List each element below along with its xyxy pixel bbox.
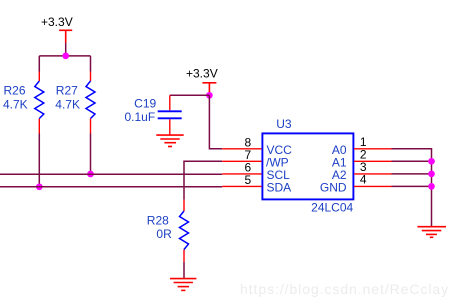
node pin4 junction: [428, 183, 435, 190]
svg-text:R28: R28: [147, 213, 169, 227]
resistor R27 pin stubs: [90, 72, 92, 134]
pin 8 VCC: [222, 148, 261, 150]
wire SCL bus: [0, 173, 222, 175]
wire pin2 to right vertical: [392, 160, 432, 162]
svg-text:C19: C19: [134, 96, 156, 110]
svg-text:U3: U3: [276, 117, 292, 131]
wire /WP from R28 top to pin 7: [184, 161, 222, 199]
ground under C19: [156, 135, 183, 146]
svg-text:GND: GND: [320, 181, 347, 195]
resistor R26: [35, 81, 44, 119]
svg-text:https://blog.csdn.net/ReCclay: https://blog.csdn.net/ReCclay: [240, 281, 449, 297]
node pin2 junction: [428, 158, 435, 165]
node R27/SCL junction: [87, 171, 94, 178]
svg-text:+3.3V: +3.3V: [41, 15, 73, 29]
wire R26 top: [38, 56, 40, 72]
wire pin3 to right vertical: [392, 173, 432, 175]
svg-text:+3.3V: +3.3V: [186, 67, 218, 81]
pin 7 /WP: [222, 160, 261, 162]
wire R28 bottom to ground: [183, 262, 185, 279]
wire top horizontal R26-R27: [39, 55, 90, 57]
node pin3 junction: [428, 171, 435, 178]
power bar +3.3V (middle): [202, 83, 216, 96]
power bar +3.3V (left): [59, 30, 72, 43]
ground right of U3: [417, 227, 446, 238]
wire power stem to junction: [65, 43, 67, 56]
wire R27 bottom to SCL bus: [90, 134, 92, 175]
capacitor C19 plates: [158, 111, 182, 118]
wire R27 top: [90, 56, 92, 72]
node junction power/C19/VCC: [206, 92, 213, 99]
wire SDA bus: [0, 186, 222, 188]
svg-text:0R: 0R: [156, 227, 172, 241]
svg-text:0.1uF: 0.1uF: [125, 110, 156, 124]
node junction power/R26/R27: [62, 53, 69, 60]
wire pin4 to right vertical: [392, 185, 432, 187]
pin 2 A1: [354, 160, 392, 162]
svg-text:5: 5: [245, 173, 252, 187]
wire VCC from junction down and right to pin 8: [209, 95, 222, 149]
svg-text:4.7K: 4.7K: [3, 98, 28, 112]
pin 3 A2: [354, 173, 392, 175]
resistor R26 pin stubs: [38, 72, 40, 134]
capacitor C19 leads: [169, 95, 171, 134]
pin 4 GND: [354, 185, 392, 187]
svg-text:4.7K: 4.7K: [55, 98, 80, 112]
pin 5 SDA: [222, 185, 261, 187]
pin 6 SCL: [222, 173, 261, 175]
resistor R27: [86, 81, 95, 119]
IC U3 24LC04 body: [262, 133, 353, 199]
svg-text:R27: R27: [56, 84, 78, 98]
svg-text:SDA: SDA: [267, 181, 292, 195]
wire C19 top horizontal: [170, 94, 210, 96]
svg-text:24LC04: 24LC04: [311, 200, 353, 214]
svg-text:R26: R26: [4, 84, 26, 98]
resistor R28 pin stubs: [183, 200, 185, 262]
resistor R28: [180, 211, 189, 250]
pin 1 A0: [354, 148, 392, 150]
node R26/SDA junction: [36, 183, 43, 190]
wire R26 bottom to SDA bus: [38, 134, 40, 187]
svg-text:4: 4: [360, 173, 367, 187]
ground under R28: [170, 279, 196, 291]
wire pin1 to right vertical: [392, 149, 432, 227]
